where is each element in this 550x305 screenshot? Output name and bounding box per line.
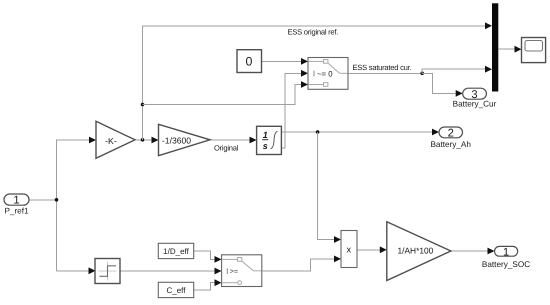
- wire -1/3600 output to Integrator input: [210, 137, 257, 144]
- wire Integrator saturation port to Switch1 control input: [282, 70, 309, 148]
- svg-text:s: s: [263, 141, 268, 151]
- svg-text:Battery_SOC: Battery_SOC: [482, 260, 530, 269]
- node E junction dot: [420, 72, 424, 76]
- svg-text:~= 0: ~= 0: [317, 69, 333, 78]
- wire riser x=56 (junction A up to -K- input, down to saturation input): [57, 137, 97, 275]
- svg-text:0: 0: [246, 55, 253, 69]
- gain 1/AH*100 (G3): [387, 222, 451, 281]
- svg-text:ESS original ref.: ESS original ref.: [288, 27, 339, 36]
- label Original: [214, 144, 239, 153]
- wire junction E to Battery_Cur outport: [422, 73, 463, 97]
- svg-text:x: x: [347, 244, 352, 254]
- wire original ref. branch y=104.5 to Switch1 data input 3: [143, 81, 309, 104]
- inport 1 P_ref1: [4, 194, 29, 215]
- svg-text:Battery_Cur: Battery_Cur: [453, 100, 497, 109]
- svg-text:>=: >=: [230, 269, 238, 276]
- svg-text:-K-: -K-: [105, 136, 117, 146]
- node C junction dot at (142.5,104.5): [141, 103, 145, 107]
- outport 3 Battery_Cur: [453, 88, 497, 108]
- svg-text:1: 1: [503, 246, 509, 258]
- wire Product output to Gain 1/AH*100: [357, 246, 387, 253]
- label ESS saturated cur.: [353, 63, 412, 72]
- svg-text:ESS saturated cur.: ESS saturated cur.: [353, 63, 412, 72]
- product block (x): [341, 231, 357, 268]
- saturation block (limits): [95, 259, 120, 284]
- wire C_eff to Switch2 data input 3: [194, 279, 222, 290]
- gain -1/3600 (G2): [159, 124, 211, 155]
- svg-text:1/AH*100: 1/AH*100: [397, 246, 433, 256]
- svg-text:P_ref1: P_ref1: [4, 206, 29, 215]
- svg-text:1: 1: [13, 195, 19, 207]
- wire integrator output branch down to Product input 1: [318, 132, 341, 243]
- constant 1/D_eff: [158, 243, 193, 258]
- wire Switch1 output (ESS saturated cur.) to junction E: [348, 72, 422, 74]
- svg-text:Battery_Ah: Battery_Ah: [430, 140, 471, 149]
- wire 1/D_eff to Switch2 data input 1: [194, 251, 222, 263]
- label ESS original ref.: [288, 27, 339, 36]
- node D junction dot on integrator output: [316, 130, 320, 134]
- svg-text:C_eff: C_eff: [167, 286, 187, 295]
- wire Saturation output to Switch2 control input: [120, 268, 222, 275]
- outport 1 Battery_SOC: [482, 246, 530, 268]
- wire junction E up to Mux input 2: [422, 66, 492, 74]
- switch Switch1 (~= 0): [308, 58, 348, 90]
- svg-text:1: 1: [263, 130, 268, 140]
- svg-text:2: 2: [448, 127, 454, 139]
- outport 2 Battery_Ah: [430, 127, 471, 149]
- wire -K- output to -1/3600 input, with junction B: [135, 137, 159, 144]
- wire Integrator output to Battery_Ah with junction D: [282, 129, 440, 136]
- switch Switch2 (>=): [222, 255, 262, 287]
- wire Constant0 output to Switch1 data input 1: [262, 58, 309, 65]
- wire Gain 1/AH*100 output to Battery_SOC outport: [451, 248, 495, 255]
- wire Mux output to Scope: [498, 46, 521, 53]
- wire Switch2 output to Product input 2: [262, 256, 341, 271]
- svg-text:1/D_eff: 1/D_eff: [163, 247, 189, 256]
- constant 0 (C0): [237, 50, 262, 73]
- mux (vertical black bar): [492, 3, 498, 91]
- wire ESS original ref. riser x=142.5 up and across top to Mux input 1: [143, 22, 493, 139]
- constant C_eff: [158, 282, 193, 297]
- svg-text:Original: Original: [214, 144, 239, 153]
- gain -K- (G1): [96, 121, 135, 158]
- node B junction dot after -K-: [141, 138, 145, 142]
- wire P_ref1 to junction A: [29, 199, 57, 201]
- integrator 1/s with saturation (U1): [257, 126, 282, 154]
- node A junction dot on P_ref1 net: [55, 198, 59, 202]
- svg-text:-1/3600: -1/3600: [162, 136, 191, 146]
- scope block: [522, 38, 546, 63]
